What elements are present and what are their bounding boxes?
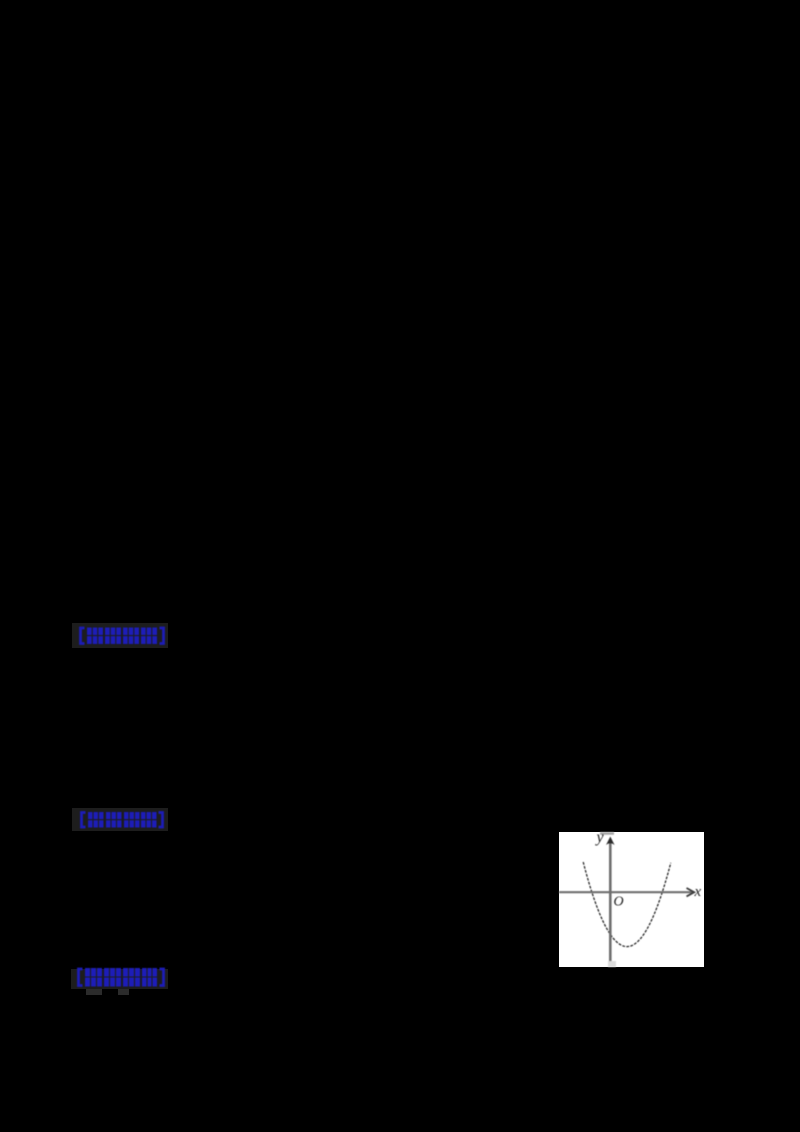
y-axis bottom selection handle (608, 961, 616, 967)
section marker 2 (blue highlighted heading, faux CJK glyphs) (72, 808, 168, 831)
graph figure: white panel with parabola (559, 832, 704, 967)
section marker 3 (blue highlighted heading, faux CJK glyphs) (71, 969, 168, 990)
svg-text:O: O (614, 895, 624, 910)
marker 3 descender blob left (86, 989, 102, 995)
svg-text:x: x (694, 884, 702, 900)
x-axis arrowhead (687, 888, 695, 896)
parabola curve (finely dashed) (583, 862, 671, 947)
y-axis arrowhead (606, 837, 615, 846)
x-axis (559, 891, 692, 893)
y-axis line (gray drawn object) (609, 839, 612, 961)
svg-text:y: y (595, 832, 605, 846)
section marker 1 (blue highlighted heading, faux CJK glyphs) (72, 623, 168, 648)
marker 3 descender blob right (118, 989, 129, 995)
y-axis top selection handle (600, 832, 614, 835)
